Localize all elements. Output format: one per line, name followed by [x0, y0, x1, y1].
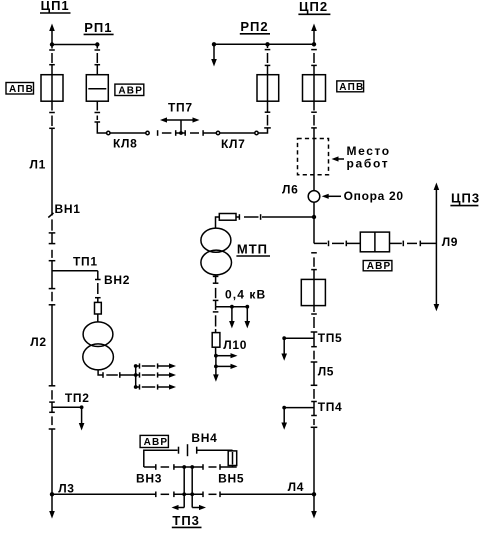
bus ТП1 0.4kV riser [135, 366, 137, 387]
svg-text:МТП: МТП [237, 242, 268, 257]
arrow ЦП2 feeder up [313, 30, 315, 44]
wire ВН4 riser left [144, 450, 178, 467]
svg-text:Л4: Л4 [288, 480, 305, 494]
label Л4 [288, 480, 305, 494]
svg-text:Л1: Л1 [30, 158, 47, 172]
label ВН4 [191, 431, 217, 445]
svg-text:КЛ7: КЛ7 [221, 137, 246, 151]
cable end КЛ8 right [146, 131, 149, 134]
wire ТП3 drop left [183, 467, 185, 508]
svg-text:0,4 кВ: 0,4 кВ [225, 288, 266, 302]
svg-text:Л5: Л5 [318, 365, 335, 379]
label Л10 [223, 338, 247, 352]
wire ЦП2 bus to МТП junction [313, 202, 315, 243]
fuse МТП [219, 214, 236, 221]
arrow ТП1 feeder 3 [136, 386, 140, 388]
label Место работ [347, 144, 391, 158]
svg-text:АВР: АВР [118, 85, 143, 96]
wire ТП7 to КЛ7 dashed [181, 132, 185, 134]
wire РП2 branch upper [267, 44, 269, 48]
label Л3 [58, 482, 74, 496]
svg-text:ВН1: ВН1 [55, 202, 81, 216]
label Л2 [30, 335, 47, 349]
wire tap ТП4 [284, 407, 314, 409]
wire МТП LV down [215, 275, 217, 277]
svg-text:РП1: РП1 [84, 20, 112, 35]
label ВН1 [55, 202, 81, 216]
arrow 0.4kV feeder 1 [231, 307, 233, 322]
node ТП3 label [172, 513, 200, 528]
wire middle line ТП3 [144, 466, 156, 468]
svg-text:ЦП1: ЦП1 [41, 0, 70, 13]
svg-text:РП2: РП2 [240, 19, 268, 34]
wire РП1 branch lower [96, 101, 98, 110]
node junction РП1 bus [95, 42, 99, 46]
svg-text:ВН5: ВН5 [218, 472, 244, 486]
fuse Л10 [212, 333, 220, 348]
arrow опора pointer [325, 195, 341, 197]
svg-text:АПВ: АПВ [9, 84, 34, 95]
label АПВ left [6, 83, 34, 95]
svg-text:ВН3: ВН3 [136, 472, 162, 486]
fuse ТП1 [95, 302, 102, 314]
wire ВН4 right [196, 447, 198, 454]
wire right bus Л4 section [311, 415, 317, 417]
transformer МТП [201, 228, 231, 252]
wire ТП1 LV lead [98, 370, 103, 375]
circuit breaker right bus [301, 279, 325, 305]
label Л9 [442, 235, 459, 249]
label АВР mid [115, 84, 144, 95]
arrow Л10 feeder 1 [214, 354, 218, 358]
label КЛ8 [113, 136, 138, 150]
wire Л9 branch [314, 242, 327, 244]
pole Опора 20 circle [308, 191, 320, 203]
wire РП1 branch upper [96, 45, 98, 49]
label Л5 [318, 365, 335, 379]
cable end КЛ7 left [216, 131, 219, 134]
svg-text:ТП5: ТП5 [318, 331, 343, 345]
node junction Л3 [50, 492, 54, 496]
wire Л1 [51, 128, 53, 215]
place-of-work dashed box [298, 139, 329, 175]
node junction ЦП1 bus [50, 42, 54, 46]
svg-text:АПВ: АПВ [339, 82, 364, 93]
cable end КЛ7 right [255, 131, 258, 134]
node junction Л4 [312, 492, 316, 496]
label 0,4 кВ [225, 288, 266, 302]
switch ВН4 open contact [187, 444, 189, 456]
wire tap ТП1 [52, 270, 98, 272]
wire left bus dashed section below ВН1 [51, 219, 53, 230]
node ЦП1 label [41, 0, 70, 13]
wire АВР to ЦП3 [390, 242, 402, 244]
svg-text:ТП4: ТП4 [318, 400, 343, 414]
label АВР bottom [140, 435, 168, 447]
svg-text:ТП3: ТП3 [172, 513, 200, 528]
wire КЛ8 to ТП7 dashed [157, 130, 159, 136]
switch ВН1 [48, 213, 53, 218]
wire right bus Л5 section [311, 346, 317, 348]
node ЦП3 label [451, 191, 480, 206]
cable КЛ8 [110, 132, 146, 134]
svg-text:АВР: АВР [144, 437, 169, 448]
label Л1 [30, 158, 47, 172]
bus ЦП3 double arrow [435, 189, 437, 305]
svg-text:ВН4: ВН4 [191, 431, 217, 445]
wire ТП3 drop right [191, 467, 193, 508]
svg-text:Л3: Л3 [58, 482, 74, 496]
label КЛ7 [221, 137, 246, 151]
wire right bus below breaker [313, 306, 315, 312]
svg-text:Л9: Л9 [442, 235, 459, 249]
circuit breaker АВР right [360, 232, 389, 252]
label Л6 [282, 182, 299, 196]
circuit breaker РП2 [257, 75, 279, 102]
svg-text:АВР: АВР [367, 261, 392, 272]
wire Л10 drop [215, 307, 217, 310]
node РП1 label [84, 20, 112, 35]
wire КЛ7 corner to РП2 branch [258, 128, 267, 133]
fuse ВН5 [232, 450, 234, 467]
wire 0.4kV bus horizontal [216, 306, 248, 308]
label ВН5 [218, 472, 244, 486]
arrow РП2 left feeder down [213, 44, 215, 60]
wire ТП7 drop [180, 120, 182, 133]
svg-text:Л2: Л2 [30, 335, 47, 349]
label ТП1 [73, 255, 98, 269]
label ТП2 [65, 391, 90, 405]
arrow ТП1 feeder 1 [136, 365, 140, 367]
wire МТП branch [262, 216, 314, 218]
circuit breaker РП1 (АВР, open) [86, 75, 108, 102]
node junctions middle line [182, 465, 186, 469]
node ЦП2 label [299, 0, 328, 14]
wire ЦП1 to РП1 [52, 44, 97, 46]
arrow Л10 feeder 2 [214, 365, 218, 369]
svg-text:Л6: Л6 [282, 182, 299, 196]
wire Л2 [51, 305, 53, 386]
label ВН3 [136, 472, 162, 486]
svg-text:ТП1: ТП1 [73, 255, 98, 269]
circuit breaker ЦП1 (АПВ) [41, 75, 63, 102]
svg-text:Л10: Л10 [223, 338, 247, 352]
label ТП7 [168, 101, 193, 115]
wire left bus below ТП1 tap [49, 288, 56, 290]
label АПВ right [337, 81, 364, 92]
wire ВН2 drop [97, 271, 99, 280]
node junction ТП7 [179, 131, 183, 135]
arrow right bus end [313, 494, 315, 512]
node МТП label [237, 242, 268, 257]
wire left bus ТП2 section [49, 385, 56, 387]
label ВН2 [104, 273, 130, 287]
circuit breaker ЦП2 [303, 75, 326, 102]
svg-text:ЦП2: ЦП2 [299, 0, 328, 14]
wire МТП lead down [216, 217, 220, 228]
svg-text:Опора 20: Опора 20 [344, 189, 404, 203]
svg-text:ТП7: ТП7 [168, 101, 193, 115]
label ТП5 [318, 331, 343, 345]
arrow ТП7 double [165, 119, 196, 121]
transformer ТП1 [83, 322, 113, 347]
arrow место работ pointer [335, 158, 344, 160]
cable КЛ7 [220, 132, 255, 134]
svg-text:ТП2: ТП2 [65, 391, 90, 405]
cable end КЛ8 left [107, 131, 110, 134]
svg-text:ВН2: ВН2 [104, 273, 130, 287]
label АВР right [363, 261, 392, 271]
wire ЦП1 feeder arrow up [51, 30, 53, 45]
wire ЦП2 bus below breaker [313, 101, 315, 110]
arrow left bus end [51, 494, 53, 512]
arrow ТП1 feeder 2 [136, 374, 140, 376]
label ТП4 [318, 400, 343, 414]
node РП2 label [240, 19, 268, 34]
wire ЦП1 bus disconnector section lower [51, 101, 53, 110]
wire right bus below Л9 branch [311, 252, 317, 254]
wire bottom line Л3-Л4 [52, 493, 156, 495]
wire ЦП1 bus disconnector section upper [51, 45, 53, 49]
wire РП2 bus horizontal [214, 43, 314, 45]
svg-text:ЦП3: ЦП3 [451, 191, 480, 206]
wire tap ТП2 [52, 406, 82, 408]
wire tap ТП5 [284, 337, 314, 339]
svg-text:КЛ8: КЛ8 [113, 136, 138, 150]
label Опора 20 [344, 189, 404, 203]
arrow Л10 end down [215, 366, 217, 375]
wire ЦП2 bus upper disconnector [311, 49, 317, 51]
svg-text:работ: работ [347, 156, 390, 170]
arrow 0.4kV feeder 2 [246, 307, 248, 322]
